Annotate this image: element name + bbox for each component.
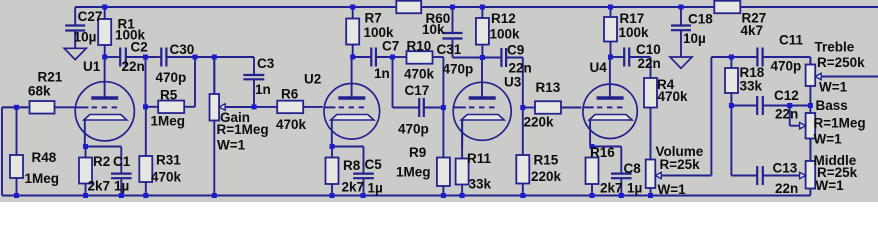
- svg-text:2k7: 2k7: [342, 180, 365, 195]
- svg-text:C1: C1: [113, 154, 131, 169]
- svg-text:R10: R10: [407, 39, 432, 54]
- svg-text:U2: U2: [304, 72, 321, 87]
- svg-text:R8: R8: [343, 158, 361, 173]
- svg-text:C8: C8: [624, 161, 642, 176]
- svg-text:220k: 220k: [531, 169, 562, 184]
- svg-text:220k: 220k: [524, 114, 555, 129]
- svg-text:C3: C3: [257, 56, 275, 71]
- svg-text:2k7: 2k7: [600, 181, 623, 196]
- svg-text:R13: R13: [536, 80, 561, 95]
- svg-text:22n: 22n: [509, 61, 532, 76]
- svg-text:10µ: 10µ: [74, 29, 97, 44]
- svg-text:R=25k: R=25k: [660, 157, 701, 172]
- svg-text:C9: C9: [507, 43, 524, 58]
- svg-text:R5: R5: [160, 88, 178, 103]
- svg-text:100k: 100k: [619, 25, 650, 40]
- svg-text:R=1Meg: R=1Meg: [217, 122, 269, 137]
- svg-text:C12: C12: [774, 88, 799, 103]
- svg-text:W=1: W=1: [814, 132, 843, 147]
- svg-text:C18: C18: [688, 12, 713, 27]
- svg-text:R21: R21: [38, 70, 63, 85]
- svg-text:U3: U3: [504, 75, 522, 90]
- svg-text:R11: R11: [467, 151, 492, 166]
- svg-text:470k: 470k: [151, 170, 182, 185]
- svg-text:C2: C2: [131, 39, 148, 54]
- svg-text:R31: R31: [156, 152, 181, 167]
- svg-text:1µ: 1µ: [368, 181, 383, 196]
- svg-text:470k: 470k: [404, 67, 435, 82]
- svg-text:C7: C7: [382, 39, 399, 54]
- svg-text:22n: 22n: [775, 181, 798, 196]
- svg-text:C11: C11: [779, 33, 804, 48]
- svg-text:1Meg: 1Meg: [25, 171, 60, 186]
- svg-text:1Meg: 1Meg: [396, 164, 431, 179]
- svg-text:1Meg: 1Meg: [151, 114, 186, 129]
- svg-text:100k: 100k: [490, 27, 521, 42]
- svg-text:W=1: W=1: [819, 80, 848, 95]
- svg-text:Treble: Treble: [815, 40, 855, 55]
- svg-text:68k: 68k: [28, 84, 51, 99]
- svg-text:R16: R16: [590, 145, 615, 160]
- svg-text:22n: 22n: [775, 107, 798, 122]
- svg-text:C10: C10: [636, 42, 661, 57]
- svg-text:R15: R15: [534, 153, 559, 168]
- svg-text:470k: 470k: [276, 117, 307, 132]
- svg-text:10µ: 10µ: [683, 31, 706, 46]
- svg-text:R=250k: R=250k: [817, 55, 865, 70]
- svg-text:U1: U1: [83, 59, 101, 74]
- svg-text:22n: 22n: [122, 59, 145, 74]
- svg-text:4k7: 4k7: [741, 23, 764, 38]
- svg-text:1µ: 1µ: [627, 181, 642, 196]
- svg-text:470p: 470p: [443, 62, 474, 77]
- svg-text:Bass: Bass: [816, 98, 848, 113]
- svg-text:C17: C17: [405, 83, 430, 98]
- svg-text:W=1: W=1: [658, 182, 687, 197]
- svg-text:R9: R9: [409, 145, 426, 160]
- svg-text:1n: 1n: [255, 82, 271, 97]
- svg-text:R=1Meg: R=1Meg: [814, 116, 866, 131]
- svg-text:33k: 33k: [740, 79, 763, 94]
- svg-text:470p: 470p: [156, 70, 187, 85]
- svg-text:470p: 470p: [771, 59, 802, 74]
- svg-text:R6: R6: [281, 87, 299, 102]
- svg-text:W=1: W=1: [816, 178, 845, 193]
- svg-text:1n: 1n: [374, 66, 390, 81]
- svg-text:R7: R7: [365, 11, 382, 26]
- svg-text:C30: C30: [170, 42, 195, 57]
- svg-text:C31: C31: [437, 42, 462, 57]
- svg-text:470p: 470p: [398, 122, 429, 137]
- svg-text:1µ: 1µ: [114, 179, 129, 194]
- svg-text:R12: R12: [491, 11, 516, 26]
- svg-text:C13: C13: [773, 161, 798, 176]
- svg-text:R17: R17: [620, 11, 645, 26]
- svg-text:33k: 33k: [469, 176, 492, 191]
- svg-text:22n: 22n: [638, 56, 661, 71]
- svg-text:10k: 10k: [422, 22, 445, 37]
- svg-text:C5: C5: [365, 157, 383, 172]
- svg-text:U4: U4: [590, 60, 608, 75]
- svg-text:470k: 470k: [658, 89, 689, 104]
- svg-text:R48: R48: [32, 150, 57, 165]
- svg-text:C27: C27: [78, 9, 103, 24]
- svg-text:2k7: 2k7: [88, 179, 111, 194]
- svg-text:R2: R2: [93, 154, 110, 169]
- svg-text:W=1: W=1: [217, 138, 246, 153]
